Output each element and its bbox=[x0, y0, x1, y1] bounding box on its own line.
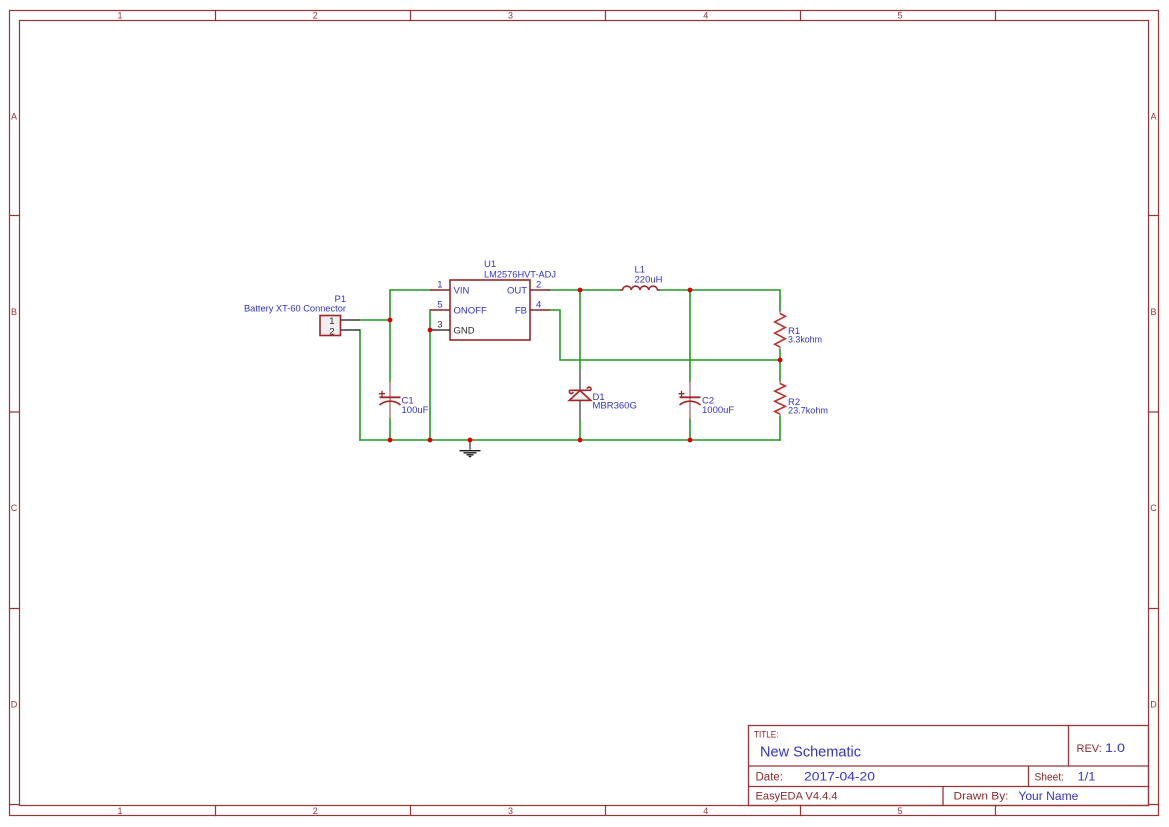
inductor L1 winding bbox=[620, 286, 660, 290]
svg-text:220uH: 220uH bbox=[635, 275, 663, 286]
capacitor C2 bottom arc plate bbox=[680, 401, 701, 405]
resistor R2 rose tips bbox=[779, 381, 781, 417]
capacitor C1 top plate bbox=[380, 396, 401, 398]
connector P1 pin 1 stub bbox=[341, 319, 361, 321]
svg-text:Battery XT-60 Connector: Battery XT-60 Connector bbox=[244, 304, 346, 315]
resistor R1 rose tips bbox=[779, 311, 781, 350]
op-amp U1 body bbox=[450, 280, 530, 340]
svg-text:2: 2 bbox=[313, 10, 318, 20]
wire C2 top bbox=[689, 290, 691, 382]
svg-text:3: 3 bbox=[508, 10, 513, 20]
U1 pin 5 stub bbox=[430, 309, 450, 311]
wire P1 pin1 to VIN junction bbox=[360, 319, 390, 321]
title block REV divider bbox=[1068, 726, 1070, 767]
wire R2 bottom lead bbox=[779, 417, 781, 441]
capacitor C2 plus sign bbox=[679, 391, 685, 397]
svg-text:3: 3 bbox=[508, 806, 513, 816]
frame row ticks right bbox=[1149, 216, 1159, 805]
frame row ticks left bbox=[10, 216, 20, 805]
wire P1 pin2 down to ground rail bbox=[359, 330, 361, 440]
capacitor C1 plus sign bbox=[379, 391, 385, 397]
junction OUT at D1 bbox=[578, 288, 583, 293]
capacitor C1 pin line bbox=[389, 382, 391, 419]
svg-text:D: D bbox=[11, 700, 18, 710]
wire R2 top lead bbox=[779, 360, 781, 381]
svg-text:1000uF: 1000uF bbox=[702, 405, 734, 416]
svg-text:B: B bbox=[1150, 307, 1156, 317]
svg-text:3.3kohm: 3.3kohm bbox=[788, 335, 822, 346]
junction rail at ground bbox=[468, 438, 473, 443]
svg-text:Drawn By:: Drawn By: bbox=[954, 791, 1009, 803]
frame column ticks top bbox=[216, 11, 996, 21]
wire R1 bottom to FB junction bbox=[779, 350, 781, 361]
svg-text:2017-04-20: 2017-04-20 bbox=[804, 770, 875, 784]
svg-text:A: A bbox=[11, 112, 17, 122]
junction VIN at P1 bbox=[388, 318, 393, 323]
svg-text:A: A bbox=[1150, 112, 1156, 122]
svg-text:LM2576HVT-ADJ: LM2576HVT-ADJ bbox=[484, 270, 556, 281]
title block DrawnBy divider bbox=[942, 787, 944, 806]
capacitor C2 pin line bbox=[689, 382, 691, 420]
svg-text:ONOFF: ONOFF bbox=[454, 306, 487, 317]
svg-text:C: C bbox=[1150, 503, 1157, 513]
junction rail at C2 bbox=[688, 438, 693, 443]
svg-text:MBR360G: MBR360G bbox=[593, 401, 637, 412]
junction ONOFF/GND bbox=[428, 328, 433, 333]
connector P1 body bbox=[320, 316, 341, 336]
title block row line 2 bbox=[749, 786, 1149, 788]
wire VIN junction up to U1 pin1 bbox=[390, 290, 430, 320]
svg-text:5: 5 bbox=[897, 10, 902, 20]
wire ONOFF/GND vertical bbox=[429, 310, 431, 440]
capacitor C2 top plate bbox=[680, 396, 701, 398]
title block outline bbox=[749, 726, 1149, 806]
svg-text:TITLE:: TITLE: bbox=[754, 730, 779, 740]
ground stub bbox=[469, 440, 471, 450]
svg-text:1: 1 bbox=[437, 280, 442, 291]
U1 pin 3 stub bbox=[430, 329, 450, 331]
svg-text:4: 4 bbox=[703, 10, 708, 20]
svg-text:Sheet:: Sheet: bbox=[1035, 772, 1065, 784]
wire ground rail bbox=[360, 439, 780, 441]
resistor R1 zigzag bbox=[775, 314, 786, 348]
svg-text:B: B bbox=[11, 307, 17, 317]
title block row line 1 bbox=[749, 765, 1149, 767]
svg-text:U1: U1 bbox=[484, 259, 496, 270]
svg-text:100uF: 100uF bbox=[402, 405, 429, 416]
svg-text:D: D bbox=[1150, 700, 1157, 710]
svg-text:EasyEDA V4.4.4: EasyEDA V4.4.4 bbox=[756, 791, 838, 803]
U1 pin 1 stub bbox=[430, 289, 450, 291]
svg-text:1: 1 bbox=[117, 10, 122, 20]
junction rail at U1 gnd bbox=[428, 438, 433, 443]
svg-text:Date:: Date: bbox=[756, 772, 784, 784]
svg-text:4: 4 bbox=[536, 300, 541, 311]
diode D1 top gray pin bbox=[579, 370, 581, 390]
wire FB to feedback rail bbox=[550, 310, 780, 360]
capacitor C1 bottom arc plate bbox=[380, 401, 401, 405]
svg-text:1: 1 bbox=[117, 806, 122, 816]
diode D1 schottky cathode bar bbox=[569, 387, 591, 393]
resistor R2 zigzag bbox=[775, 384, 786, 415]
diode D1 bottom gray pin bbox=[579, 401, 581, 420]
svg-text:5: 5 bbox=[437, 300, 442, 311]
svg-text:New Schematic: New Schematic bbox=[760, 744, 861, 761]
svg-text:3: 3 bbox=[437, 320, 442, 331]
svg-text:5: 5 bbox=[897, 806, 902, 816]
svg-text:REV:: REV: bbox=[1077, 743, 1102, 755]
svg-text:1: 1 bbox=[329, 316, 334, 327]
junction rail at C1 bbox=[388, 438, 393, 443]
svg-text:1.0: 1.0 bbox=[1105, 741, 1125, 755]
svg-text:4: 4 bbox=[703, 806, 708, 816]
junction rail at D1 bbox=[578, 438, 583, 443]
svg-text:OUT: OUT bbox=[507, 286, 527, 297]
svg-text:GND: GND bbox=[454, 326, 475, 337]
svg-text:23.7kohm: 23.7kohm bbox=[788, 406, 828, 417]
svg-text:2: 2 bbox=[313, 806, 318, 816]
svg-text:FB: FB bbox=[515, 306, 527, 317]
U1 pin 4 stub bbox=[530, 309, 550, 311]
wire C2 bottom bbox=[689, 419, 691, 440]
junction FB at R1/R2 bbox=[778, 358, 783, 363]
title block Sheet divider bbox=[1028, 766, 1030, 787]
svg-text:Your Name: Your Name bbox=[1018, 789, 1078, 803]
wire L1 to R1 top corner bbox=[660, 290, 780, 311]
wire D1 top bbox=[579, 290, 581, 370]
junction OUT at C2 bbox=[688, 288, 693, 293]
frame column ticks bottom bbox=[216, 806, 996, 816]
connector P1 pin 2 stub bbox=[341, 329, 361, 331]
svg-text:1/1: 1/1 bbox=[1078, 770, 1096, 784]
wire VIN junction down to C1 bbox=[389, 320, 391, 382]
wire C1 bottom to ground rail bbox=[389, 419, 391, 441]
ground bars bbox=[460, 451, 481, 457]
svg-text:VIN: VIN bbox=[454, 286, 470, 297]
svg-text:2: 2 bbox=[329, 326, 334, 337]
svg-text:2: 2 bbox=[536, 280, 541, 291]
svg-text:C: C bbox=[11, 503, 18, 513]
wire D1 bottom bbox=[579, 420, 581, 440]
U1 pin 2 stub bbox=[530, 289, 550, 291]
diode D1 triangle bbox=[569, 391, 591, 401]
wire U1 OUT to L1 bbox=[550, 289, 620, 291]
